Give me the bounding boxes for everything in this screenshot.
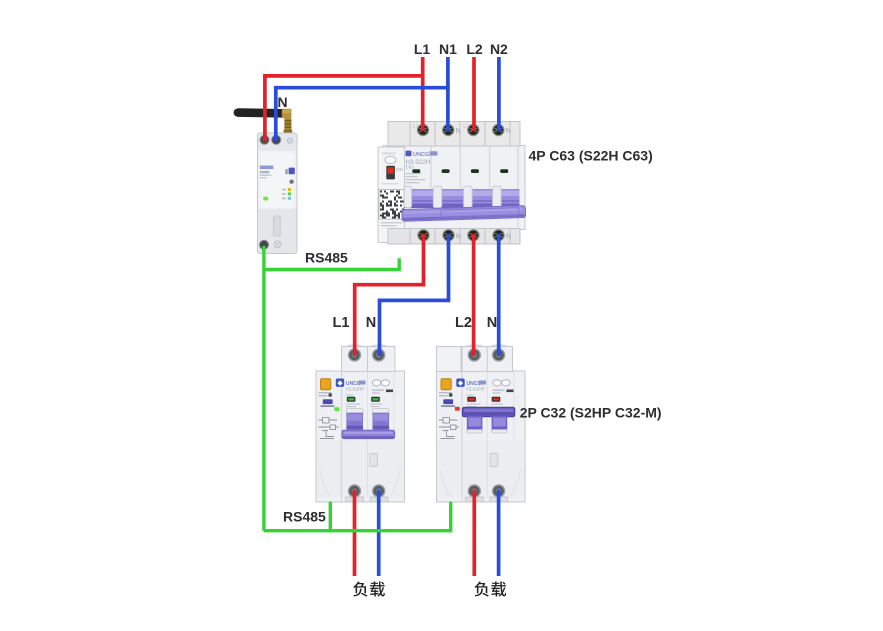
QF3 handle bar (OFF, up) — [462, 407, 515, 417]
QF3 circuit diagram — [439, 418, 459, 439]
QF3 rating plate — [443, 399, 453, 404]
gateway lower slot — [274, 216, 281, 236]
QF2 handle bar — [342, 430, 395, 438]
svg-text:YZ-S2HP: YZ-S2HP — [466, 387, 485, 392]
label load (fu zai) left — [353, 582, 385, 597]
label load (fu zai) right — [475, 582, 507, 597]
gateway bottom terminal — [259, 240, 281, 249]
QF3 status LED red — [455, 407, 460, 411]
QF3 right pole text — [493, 390, 514, 394]
svg-text:L2: L2 — [466, 41, 483, 57]
gateway button — [289, 180, 293, 184]
wire RS485 stub to QF2 (green) — [329, 502, 332, 531]
QF3 top terminal screws — [468, 349, 504, 361]
4P brand text — [406, 151, 438, 184]
QF2 lower slot — [370, 454, 378, 467]
svg-text:ON: ON — [396, 167, 403, 172]
svg-text:N: N — [456, 234, 461, 241]
svg-text:4P C63 (S22H C63): 4P C63 (S22H C63) — [529, 148, 653, 164]
wire N1 branch to gateway (blue) — [276, 88, 450, 141]
svg-text:N: N — [277, 94, 287, 110]
4P QR code — [379, 190, 404, 227]
svg-text:L2: L2 — [455, 315, 472, 331]
circuit breaker QF2 2P C32 (left, ON) — [316, 345, 405, 502]
circuit breaker QF3 2P C32 (right, OFF) — [437, 345, 526, 502]
wire 4P out L2 to QF3 (red) — [472, 234, 476, 356]
QF2 brand logo — [336, 379, 366, 396]
wire QF3 load N (blue) — [497, 490, 501, 576]
4P toggle recess purple band — [404, 189, 520, 208]
QF2 top terminal screws — [349, 349, 385, 361]
gateway top terminals — [260, 135, 293, 144]
gateway wifi icon — [285, 168, 295, 175]
gateway body — [258, 133, 298, 254]
svg-text:N: N — [456, 128, 461, 135]
QF2 indicator ovals — [372, 380, 389, 386]
svg-text:L1: L1 — [413, 124, 419, 130]
4P top terminal strip — [388, 122, 520, 147]
QF2 state windows green (ON) — [346, 397, 383, 410]
circuit breaker QF1 4P C63 (S22H C63) — [378, 122, 526, 245]
wire QF2 load N (blue) — [377, 490, 381, 576]
svg-text:N2: N2 — [490, 41, 508, 57]
QF2 status LED green — [334, 407, 339, 411]
svg-text:2P C32 (S2HP C32-M): 2P C32 (S2HP C32-M) — [520, 405, 662, 421]
svg-text:L1: L1 — [333, 315, 350, 331]
4P pole indicator windows — [412, 169, 508, 173]
wire 4P out N2 to QF3 (blue) — [497, 234, 501, 356]
gateway label block — [260, 166, 274, 179]
wire 4P out L1 to QF2 (red) — [355, 234, 424, 356]
wire N2 supply (blue) — [497, 57, 501, 131]
QF3 lower slot — [490, 454, 498, 467]
QF3 test button — [441, 379, 451, 390]
wire RS485 bus (green) — [262, 246, 265, 531]
wire N1 supply (blue) — [446, 57, 450, 131]
4P aux module left — [378, 147, 405, 243]
4P bottom terminal screws — [418, 230, 511, 241]
wire QF3 load L (red) — [472, 490, 476, 576]
4P toggle levers white — [404, 186, 501, 207]
wire L2 supply (red) — [472, 57, 476, 131]
QF2 circuit diagram — [319, 418, 339, 439]
WIRES — [264, 57, 499, 576]
QF3 indicator ovals — [493, 380, 510, 386]
QF3 module text — [439, 392, 453, 397]
QF2 right pole text — [372, 390, 393, 394]
antenna — [234, 108, 293, 133]
4P handle bar — [402, 206, 526, 222]
4P top terminal screws — [417, 124, 504, 135]
QF2 bottom tabs — [346, 497, 389, 502]
gateway module U1 (smart meter with antenna) — [234, 108, 297, 253]
gateway LEDs — [263, 188, 291, 200]
QF2 body — [316, 345, 405, 502]
QF3 state windows red (OFF) — [467, 397, 504, 407]
QF3 toggles OFF (down) — [467, 416, 507, 433]
svg-text:YZ-S2HP: YZ-S2HP — [345, 387, 364, 392]
QF3 body — [437, 345, 526, 502]
wire RS485 lower run (green) — [264, 502, 451, 531]
svg-text:UNCG: UNCG — [413, 152, 429, 158]
QF2 rating plate — [323, 399, 333, 404]
wire 4P out N1 to QF2 (blue) — [380, 234, 449, 356]
QF2 bottom terminal screws — [349, 485, 385, 497]
svg-text:RS485: RS485 — [305, 250, 348, 266]
QF3 brand logo — [456, 379, 486, 396]
wire L1 supply (red) — [421, 57, 425, 131]
wire L1 branch to gateway (red) — [265, 76, 425, 141]
wire RS485 to 4P breaker (green) — [264, 258, 399, 269]
4P terminal N marks — [413, 124, 511, 135]
QF3 bottom tabs — [465, 497, 508, 502]
4P bottom terminal strip — [388, 229, 520, 245]
svg-text:N: N — [487, 315, 497, 331]
QF2 toggles ON (up) — [346, 409, 389, 430]
wire QF2 load L (red) — [353, 490, 357, 576]
svg-text:N: N — [366, 315, 376, 331]
QF3 bottom terminal screws — [468, 485, 504, 497]
svg-text:C63: C63 — [406, 164, 415, 169]
svg-text:L2: L2 — [463, 124, 469, 130]
svg-text:N: N — [506, 234, 511, 241]
QF2 test button — [321, 379, 331, 390]
svg-text:L1: L1 — [414, 41, 431, 57]
svg-text:N1: N1 — [439, 41, 457, 57]
4P body main — [383, 146, 525, 230]
QF2 module text — [319, 392, 333, 397]
svg-text:N: N — [506, 128, 511, 135]
svg-text:RS485: RS485 — [283, 509, 326, 525]
